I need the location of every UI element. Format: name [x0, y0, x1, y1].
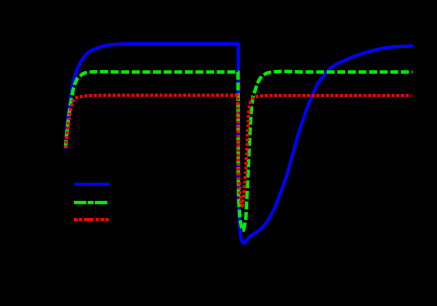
green dashed curve [66, 71, 413, 230]
legend: blue solid sample line [74, 183, 110, 186]
legend: red dotted sample line [74, 218, 109, 221]
red dotted curve [66, 95, 412, 206]
legend: green dashed sample line [74, 201, 108, 204]
blue solid curve [65, 44, 412, 243]
